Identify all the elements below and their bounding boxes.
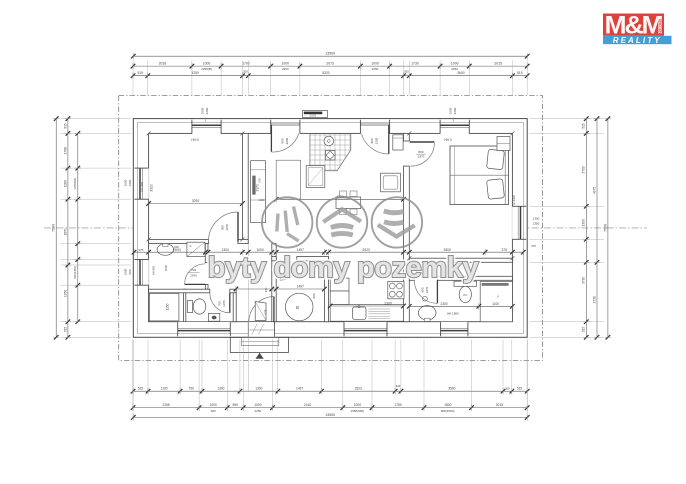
wall H5 utility top [297,257,329,261]
wall V5 bedroom/kitchen lower [404,166,410,322]
svg-text:900: 900 [312,293,316,298]
watermark circle icon 3 (land) [372,197,422,247]
svg-text:7500: 7500 [603,224,607,232]
svg-text:B: B [296,305,299,310]
hall closet [306,166,325,188]
fridge [393,135,403,150]
top overall dimension 13500 [133,55,527,57]
svg-text:3500: 3500 [448,387,455,391]
svg-text:3520: 3520 [150,184,154,192]
svg-text:3700: 3700 [582,166,586,173]
right chain row2 [596,119,598,338]
wall V7 utility/kitchen [324,261,328,322]
hall tall cabinet [251,161,266,223]
right extension lines [530,321,605,323]
svg-text:375: 375 [531,244,536,248]
svg-text:1950: 1950 [63,290,67,297]
WC toilet bowl [193,299,206,314]
hall wardrobe rect [276,160,301,199]
svg-text:515: 515 [582,327,586,333]
door A leaf [270,125,272,152]
left chain row2 [67,119,69,338]
exterior wall outer face [133,119,527,338]
WC door arc [210,293,230,313]
svg-text:900: 900 [174,245,179,249]
svg-text:2300: 2300 [441,302,448,306]
svg-text:3292: 3292 [192,199,200,203]
utility door arc [280,261,299,280]
interior chain dining 4220 [276,198,403,200]
svg-text:2730: 2730 [592,296,596,303]
shower square [149,293,179,321]
svg-text:1350: 1350 [533,222,540,226]
svg-text:1550(900): 1550(900) [351,409,365,413]
svg-text:byty domy pozemky: byty domy pozemky [208,252,479,284]
svg-text:1300: 1300 [217,387,224,391]
chimney S203 [303,111,328,118]
svg-text:1768: 1768 [63,147,67,154]
washing machine [187,242,205,256]
svg-text:HH 900: HH 900 [152,265,156,275]
wall H4 bedroom bottom [409,258,512,262]
wall V2 washroom upper [205,244,208,263]
svg-text:1970: 1970 [190,274,197,278]
svg-text:2015: 2015 [494,61,502,65]
dining table [336,197,361,209]
svg-text:1000: 1000 [371,61,379,65]
svg-text:HH 1800: HH 1800 [447,312,459,316]
svg-text:1250/600: 1250/600 [73,177,77,189]
bottom chain row1 [133,390,527,392]
svg-text:270: 270 [258,178,262,183]
svg-text:2410: 2410 [304,403,312,407]
left chain row3 [77,133,79,321]
bottom overall dimension 13500 [133,416,527,418]
svg-text:13500: 13500 [325,51,335,55]
svg-text:1100: 1100 [161,387,168,391]
chair 2 [350,191,357,197]
bottom chain row2 [133,407,527,409]
pillow 2 [487,179,505,200]
svg-text:13500: 13500 [325,413,335,417]
svg-text:1970: 1970 [418,155,425,159]
window B3 bottom wall bathroom [441,322,468,333]
svg-text:515: 515 [138,387,144,391]
living room door arc [208,212,238,242]
wall H5 utility top left jamb [272,257,276,261]
svg-text:1000: 1000 [254,403,262,407]
svg-text:2265: 2265 [162,403,170,407]
door B leaf [388,125,390,154]
svg-text:1300: 1300 [582,219,586,226]
shower enclosure [480,282,512,322]
svg-text:515: 515 [517,387,523,391]
svg-text:H=1300: H=1300 [512,195,516,205]
svg-text:HOLDING: HOLDING [659,18,663,33]
utility boiler circle [285,293,313,321]
svg-text:375: 375 [138,248,143,252]
bedroom corner ticks [407,131,411,135]
entrance door swing arc [249,297,274,322]
svg-text:200: 200 [243,70,248,74]
chair 4 [350,209,357,215]
svg-text:800(1650): 800(1650) [441,409,455,413]
svg-text:1150: 1150 [166,303,170,310]
kitchen sink top circle [324,136,334,146]
svg-text:5320: 5320 [322,71,330,75]
M&M Reality logo red box [603,14,664,36]
svg-text:REALITY: REALITY [613,36,662,45]
bed foot line [454,146,456,205]
svg-text:2250(B): 2250(B) [201,67,212,71]
porch steps [241,337,278,345]
living room corner ticks [147,131,151,135]
svg-text:3600: 3600 [457,71,465,75]
interior chain across plan [134,251,523,253]
svg-text:2300: 2300 [384,302,392,306]
wall WC left [183,289,185,322]
wall H2 jamb right [230,289,236,293]
top extension lines [247,61,249,96]
wall living/hall P1 [242,133,248,243]
WC door leaf [229,293,231,313]
exterior wall inner face [149,133,513,321]
top chain row3 [133,75,527,77]
corridor slanted cabinet [255,302,266,321]
left extension lines [61,321,132,323]
svg-text:3250: 3250 [191,71,199,75]
svg-text:1000: 1000 [451,61,459,65]
svg-text:3170: 3170 [256,184,260,191]
utility width dim [236,288,325,290]
svg-text:1970: 1970 [225,224,229,231]
horizontal centerline axis [44,227,647,229]
chair 1 [340,191,347,197]
svg-text:750: 750 [188,387,194,391]
kitchen counter bottom [330,305,403,322]
svg-text:515: 515 [63,123,67,129]
svg-text:2200: 2200 [205,107,209,114]
svg-text:HH 0: HH 0 [191,138,198,142]
bed double [450,146,509,205]
porch outline [230,337,288,352]
bathroom toilet tank [454,281,477,286]
utility door leaf [279,261,281,280]
bedroom door leaf [410,141,435,143]
svg-text:700: 700 [191,268,196,272]
svg-text:2200: 2200 [375,137,379,144]
watermark circle icon 1 (sheaf) [262,197,312,247]
WC toilet tank [188,301,193,313]
svg-text:2523: 2523 [355,387,362,391]
armchair [381,173,401,192]
bathroom washbasin [418,306,436,320]
washroom door leaf [185,283,206,285]
entrance door opening [248,322,274,337]
chair 3 [340,209,347,215]
bottom extension lines [321,340,323,394]
svg-text:1000: 1000 [203,61,211,65]
svg-text:1300: 1300 [533,217,540,221]
bedroom nightstand [497,137,510,151]
washroom door arc [185,264,206,285]
bathroom door arc [414,280,437,303]
svg-text:375: 375 [264,309,268,314]
pillow 1 [487,149,505,170]
living room door leaf [237,212,239,242]
svg-text:800: 800 [221,225,225,230]
door B swing arc [361,134,388,154]
roof overhang dashed outline [119,96,543,361]
window B2 bottom wall kitchen [344,322,387,333]
svg-text:1000: 1000 [354,403,362,407]
svg-text:1000: 1000 [282,61,290,65]
svg-text:515: 515 [138,71,144,75]
logo blue band REALITY [603,36,672,44]
svg-text:A: A [189,244,191,248]
svg-text:600: 600 [211,409,216,413]
kitchen hob square [326,151,336,161]
kitchen sink bottom [353,307,367,319]
svg-text:2000: 2000 [285,137,289,144]
living room dim line [149,203,243,205]
svg-text:1497: 1497 [296,387,303,391]
svg-text:550: 550 [233,403,239,407]
svg-text:S203: S203 [310,114,317,118]
kitchen low cupboard 2 [330,291,349,305]
svg-text:1780: 1780 [394,403,402,407]
watermark circle icon 2 (house) [317,197,367,247]
svg-text:300: 300 [264,287,268,292]
svg-text:800: 800 [418,150,423,154]
window L2 left wall washroom [138,260,149,286]
entrance door leaf [273,297,275,323]
svg-text:300: 300 [505,387,510,391]
window R1 right wall bedroom [512,206,523,239]
svg-text:1970: 1970 [425,286,429,293]
svg-text:1730: 1730 [411,61,419,65]
entrance triangle marker [256,353,264,359]
door A swing arc [271,134,298,152]
terrace door B opening [360,119,389,134]
svg-text:2073: 2073 [326,61,334,65]
wall V4 corridor right [272,244,276,322]
window B1 bottom wall WC [178,322,231,333]
exterior wall middle line [137,122,523,333]
svg-text:WC: WC [463,293,467,297]
wall H1 under living room left [149,239,209,243]
kitchen low cupboard 1 [330,278,349,291]
svg-text:1100: 1100 [492,302,499,306]
bedroom door arc [411,143,435,166]
svg-text:2250: 2250 [282,67,289,71]
svg-text:515: 515 [517,71,523,75]
window T1 top wall living [192,123,221,134]
svg-text:4975: 4975 [592,187,596,194]
svg-text:200: 200 [404,70,409,74]
kitchen dim 2300 [330,305,403,307]
wall H3 bathroom top [437,276,512,280]
svg-text:x: x [497,295,499,299]
bathroom toilet bowl [459,286,471,302]
wall V2 washroom lower [205,284,208,289]
svg-text:1800: 1800 [444,403,452,407]
drainboard lines [369,308,391,310]
bathroom door leaf [436,280,438,303]
svg-text:2015: 2015 [496,403,504,407]
window L1 left wall living [138,168,149,199]
svg-text:1000: 1000 [210,403,218,407]
svg-text:HH 0: HH 0 [444,138,451,142]
svg-text:1300: 1300 [255,387,262,391]
washbasin washroom [157,244,173,256]
svg-text:1970: 1970 [222,300,226,307]
wall H1 jamb right [238,239,248,243]
WC corner sink [208,313,219,321]
svg-text:1870: 1870 [63,228,67,235]
svg-text:7500: 7500 [52,224,56,232]
wall H3 bathroom top left jamb [409,276,414,280]
wall V5 bedroom upper [404,133,410,141]
svg-text:515: 515 [582,123,586,129]
svg-text:2018: 2018 [159,61,167,65]
window T2 top wall bedroom [440,123,469,134]
vertical extension line x=248.3 [247,245,249,392]
svg-text:600: 600 [128,269,132,274]
svg-text:2250: 2250 [372,67,379,71]
terrace door A opening [271,119,300,134]
svg-text:1950: 1950 [128,179,132,186]
left overall dimension 7500 [55,119,57,338]
svg-text:600(1450): 600(1450) [73,266,77,279]
svg-text:1500: 1500 [164,264,168,271]
kitchen stove 4 burners [388,281,404,298]
svg-text:200: 200 [396,384,401,388]
right overall dimension 7500 [607,119,609,338]
svg-text:3730: 3730 [582,277,586,284]
top chain row2 [133,65,527,67]
wall V3 WC right [233,293,236,322]
svg-text:2200: 2200 [453,107,457,114]
svg-text:1400: 1400 [259,198,265,202]
svg-text:2250: 2250 [255,409,262,413]
svg-text:1497: 1497 [297,285,305,289]
wall H2 above WC and shower [149,289,210,293]
right chain row1 [585,119,587,338]
bathroom floor drain [423,296,428,301]
svg-text:1000: 1000 [63,180,67,187]
svg-text:515: 515 [63,327,67,333]
svg-text:375: 375 [501,248,507,252]
svg-text:1700: 1700 [242,61,250,65]
svg-text:HH 900: HH 900 [140,182,144,193]
